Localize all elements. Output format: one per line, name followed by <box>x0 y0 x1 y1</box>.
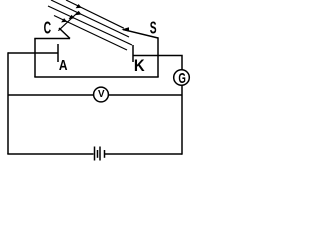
arrowhead on ray 3 <box>69 15 75 19</box>
phototube top-right edge / leader from label S <box>123 30 158 39</box>
arrowhead on ray 4 <box>61 18 67 22</box>
svg-text:G: G <box>178 70 186 86</box>
galvanometer G circle <box>174 70 190 86</box>
leader line to label C <box>59 28 70 39</box>
barb stroke across rays <box>58 12 79 31</box>
electrode A lead wire <box>8 52 58 54</box>
phototube envelope left wall <box>34 39 36 78</box>
arrowhead on ray 2 <box>76 11 82 15</box>
wire voltmeter row right <box>109 94 182 96</box>
electrode K plate <box>132 45 134 62</box>
electrode K lead wire to G <box>133 56 182 70</box>
arrowhead of S leader <box>122 27 130 31</box>
svg-text:S: S <box>150 18 157 37</box>
light ray 2 <box>51 0 129 37</box>
arrowhead on ray 1 <box>76 4 82 8</box>
battery long plate 1 <box>94 147 96 161</box>
battery short plate 2 <box>104 150 106 158</box>
light ray 3 <box>48 6 132 45</box>
phototube bottom edge <box>34 76 158 78</box>
svg-text:K: K <box>134 57 145 75</box>
svg-text:V: V <box>98 89 105 100</box>
phototube right wall <box>157 37 159 77</box>
battery long plate 2 <box>99 147 101 161</box>
wire left vertical <box>7 52 9 154</box>
light ray 4 <box>54 16 127 51</box>
phototube top-left edge <box>34 38 70 40</box>
wire voltmeter row left <box>8 94 93 96</box>
svg-text:A: A <box>59 57 68 73</box>
voltmeter V circle <box>94 87 109 102</box>
wire bottom left to battery <box>7 153 93 155</box>
electrode A plate <box>57 44 59 62</box>
svg-text:C: C <box>44 19 52 39</box>
wire bottom right from battery <box>105 153 183 155</box>
wire right vertical below G <box>181 86 183 155</box>
battery short plate 1 <box>97 150 99 158</box>
light ray 1 <box>66 0 124 28</box>
